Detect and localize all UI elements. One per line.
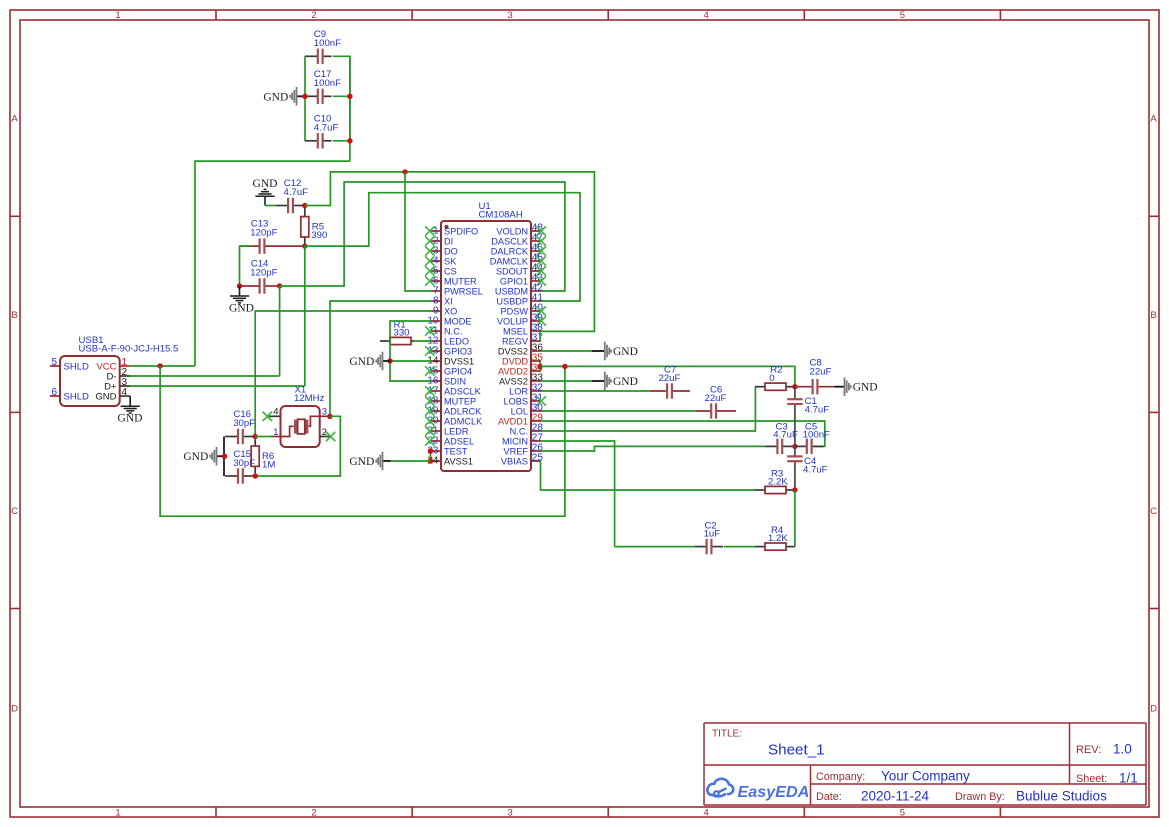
pin 4 of X1	[268, 415, 281, 417]
wire D+ from USB pin3	[130, 385, 305, 387]
svg-text:100nF: 100nF	[314, 38, 341, 49]
svg-text:MUTEP: MUTEP	[444, 396, 476, 406]
svg-text:SHLD: SHLD	[64, 361, 89, 372]
svg-text:DASCLK: DASCLK	[491, 236, 529, 246]
svg-text:D: D	[11, 703, 18, 714]
svg-text:AVSS1: AVSS1	[444, 456, 473, 466]
svg-text:DI: DI	[444, 236, 453, 246]
junction C12 right	[302, 203, 307, 208]
pin 2 of X1	[320, 436, 331, 438]
svg-text:CM108AH: CM108AH	[479, 210, 523, 221]
svg-text:4: 4	[704, 10, 709, 21]
wire VCC vertical C9 to C10 right side	[349, 56, 351, 161]
svg-text:1: 1	[273, 427, 278, 438]
ground flag GND at pin36 DVSS2	[541, 350, 592, 352]
svg-text:GPIO3: GPIO3	[444, 346, 472, 356]
svg-text:2020-11-24: 2020-11-24	[861, 789, 930, 804]
svg-text:Your Company: Your Company	[881, 769, 970, 784]
wire PWRSEL riser	[405, 172, 431, 291]
wire D+ node riser to USBDP net	[305, 193, 580, 301]
svg-text:1/1: 1/1	[1119, 771, 1138, 786]
svg-text:GND: GND	[349, 356, 374, 368]
pin 4 GND	[120, 395, 130, 397]
pin 16 SDIN	[431, 380, 441, 382]
svg-text:VBIAS: VBIAS	[501, 456, 528, 466]
wire VCC riser down to AVDD rail	[160, 366, 565, 516]
junction crystal pin3 / XI	[327, 414, 332, 419]
svg-text:1uF: 1uF	[704, 529, 721, 540]
svg-text:2: 2	[311, 10, 316, 21]
pin 34 AVDD2	[531, 370, 541, 372]
svg-text:4.7uF: 4.7uF	[803, 464, 828, 475]
svg-text:Sheet:: Sheet:	[1076, 773, 1107, 785]
svg-text:6: 6	[51, 387, 57, 398]
svg-text:ADSCLK: ADSCLK	[444, 386, 482, 396]
pin 1 SPDIFO	[431, 230, 441, 232]
pin 28 N.C.	[531, 430, 541, 432]
wire C17 right to VCC vertical	[333, 95, 350, 97]
pin 2 DI	[431, 240, 441, 242]
junction crystal cap ground	[222, 454, 227, 459]
pin 43 GPIO1	[531, 280, 541, 282]
svg-text:DALRCK: DALRCK	[491, 246, 529, 256]
pin 29 AVDD1	[531, 420, 541, 422]
junction PWRSEL riser on REGV net	[402, 169, 407, 174]
svg-text:LEDO: LEDO	[444, 336, 469, 346]
junction R3 right / C4	[792, 487, 797, 492]
junction C17 right	[347, 94, 352, 99]
svg-text:AVSS2: AVSS2	[499, 376, 528, 386]
wire VCC from cap block down-left to USB	[195, 161, 350, 366]
svg-text:4.7uF: 4.7uF	[314, 123, 339, 134]
svg-text:22uF: 22uF	[705, 393, 727, 404]
svg-text:1: 1	[115, 10, 120, 21]
svg-text:GND: GND	[263, 91, 288, 103]
ground flag GND at AVSS1	[383, 460, 391, 462]
wire R1 to pin12 LEDO	[414, 340, 431, 342]
pin 7 PWRSEL	[431, 290, 441, 292]
ground flag GND at DVSS1	[383, 360, 391, 362]
svg-text:LOL: LOL	[511, 406, 528, 416]
svg-text:AVDD2: AVDD2	[498, 366, 528, 376]
pin 19 ADLRCK	[431, 410, 441, 412]
svg-text:DO: DO	[444, 246, 458, 256]
ground flag GND top (at C17)	[297, 95, 305, 97]
ground flag GND at C8	[835, 386, 845, 388]
pin 44 SDOUT	[531, 270, 541, 272]
wire VBIAS pin25 to R3	[541, 461, 756, 490]
svg-text:22uF: 22uF	[810, 366, 832, 377]
svg-text:PWRSEL: PWRSEL	[444, 286, 483, 296]
svg-text:120pF: 120pF	[250, 268, 277, 279]
wire MSEL/REGV tie	[539, 331, 541, 341]
wire AVDD1 pin29 to C5	[541, 421, 825, 446]
junction R2 right / C8 / C1	[792, 384, 797, 389]
pin 47 DASCLK	[531, 240, 541, 242]
wire MODE/DVSS1/SDIN ground tie	[390, 321, 431, 381]
wire XI net from pin8 down to crystal	[330, 301, 431, 416]
wire VCC vertical right of C9/C17/C10	[333, 56, 350, 141]
pin 6 MUTER	[431, 280, 441, 282]
svg-text:Date:: Date:	[816, 791, 842, 803]
svg-text:A: A	[11, 114, 18, 125]
junction C10 right / VCC	[347, 138, 352, 143]
svg-text:PDSW: PDSW	[500, 306, 528, 316]
wire MICIN pin27 to C2	[541, 441, 615, 547]
svg-text:3: 3	[322, 407, 327, 418]
svg-text:4: 4	[704, 808, 709, 819]
svg-text:LOR: LOR	[509, 386, 528, 396]
svg-text:GPIO4: GPIO4	[444, 366, 472, 376]
svg-text:N.C.: N.C.	[510, 426, 528, 436]
pin 20 ADMCLK	[431, 420, 441, 422]
pin 3 D+	[120, 385, 130, 387]
svg-text:DVDD: DVDD	[502, 356, 528, 366]
pin 6 SHLD	[50, 395, 60, 397]
junction TEST pin	[428, 448, 433, 453]
svg-text:Sheet_1: Sheet_1	[768, 742, 825, 759]
svg-text:DAMCLK: DAMCLK	[490, 256, 529, 266]
sheet title block	[704, 722, 1146, 724]
svg-text:VOLDN: VOLDN	[496, 226, 528, 236]
pin 27 MICIN	[531, 440, 541, 442]
svg-text:100nF: 100nF	[314, 78, 341, 89]
svg-text:Drawn By:: Drawn By:	[955, 791, 1005, 803]
svg-text:C: C	[1150, 506, 1157, 517]
pin 9 XO	[431, 310, 441, 312]
junction VCC at USB	[157, 363, 162, 368]
svg-text:Company:: Company:	[816, 771, 865, 783]
svg-text:GND: GND	[229, 303, 254, 315]
svg-text:SDIN: SDIN	[444, 376, 466, 386]
pin 1 VCC	[120, 365, 130, 367]
svg-text:4.7uF: 4.7uF	[805, 405, 830, 416]
pin 33 AVSS2	[531, 380, 541, 382]
svg-text:TEST: TEST	[444, 446, 468, 456]
pin 4 SK	[431, 260, 441, 262]
pin 46 DALRCK	[531, 250, 541, 252]
pin 31 LOBS	[531, 400, 541, 402]
junction C3/C5/C1/C4 node	[792, 444, 797, 449]
svg-text:USBDM: USBDM	[495, 286, 528, 296]
svg-text:Bublue Studios: Bublue Studios	[1016, 789, 1107, 804]
svg-text:1: 1	[115, 808, 120, 819]
junction DVDD/AVDD2	[537, 364, 542, 369]
wire VCC from USB pin1	[130, 365, 195, 367]
ground symbol GND at USB pin4	[129, 396, 131, 406]
svg-text:MICIN: MICIN	[502, 436, 528, 446]
junction C14 right / D- node	[277, 283, 282, 288]
wire GND stem to C12	[265, 205, 276, 207]
pin 8 XI	[431, 300, 441, 302]
svg-text:1M: 1M	[262, 460, 275, 471]
svg-text:C: C	[11, 506, 18, 517]
svg-text:N.C.: N.C.	[444, 326, 462, 336]
wire C12/R5 node to REGV net riser	[305, 172, 595, 332]
svg-text:D: D	[1150, 703, 1157, 714]
svg-text:SDOUT: SDOUT	[496, 266, 529, 276]
svg-text:25: 25	[532, 453, 544, 464]
pin 25 VBIAS	[531, 460, 541, 462]
wire D+ riser down to USB D+	[304, 246, 306, 386]
svg-text:EasyEDA: EasyEDA	[738, 784, 810, 801]
junction C15 right / R6 bottom	[253, 473, 258, 478]
wire R3 junction down to R4	[794, 490, 796, 547]
wire XO to crystal pin1	[255, 436, 271, 438]
ground symbol GND above C12	[264, 196, 266, 205]
pin 38 MSEL	[531, 330, 541, 332]
wire DVDD/AVDD2 power tie	[539, 361, 541, 371]
svg-text:22uF: 22uF	[659, 373, 681, 384]
pin 42 USBDM	[531, 290, 541, 292]
svg-text:SPDIFO: SPDIFO	[444, 226, 478, 236]
svg-text:4: 4	[273, 407, 278, 418]
svg-text:USB-A-F-90-JCJ-H15.5: USB-A-F-90-JCJ-H15.5	[79, 344, 179, 355]
pin 30 LOL	[531, 410, 541, 412]
svg-text:30pF: 30pF	[233, 418, 255, 429]
wire AVDD rail to R2	[540, 366, 795, 386]
svg-text:MUTER: MUTER	[444, 276, 477, 286]
pin 17 ADSCLK	[431, 390, 441, 392]
wire AVSS1 to ground	[390, 460, 431, 462]
ground symbol GND below C14	[239, 286, 241, 296]
wire C16 left to C15 left (ground)	[223, 437, 225, 477]
wire pin14 DVSS1 to ground	[390, 360, 431, 362]
pin 3 of X1	[320, 415, 330, 417]
pin 11 N.C.	[431, 330, 441, 332]
svg-text:VREF: VREF	[503, 446, 528, 456]
pin 3 DO	[431, 250, 441, 252]
svg-text:VOLUP: VOLUP	[497, 316, 528, 326]
junction C16 right / XO	[253, 434, 258, 439]
svg-text:GND: GND	[118, 412, 143, 424]
ground flag GND at pin33 AVSS2	[541, 380, 592, 382]
wire C10 right to VCC vertical	[333, 140, 350, 142]
pin 41 USBDP	[531, 300, 541, 302]
wire D- node to USBDM net	[280, 182, 565, 291]
svg-text:5: 5	[900, 808, 905, 819]
EasyEDA logo	[707, 779, 733, 797]
svg-text:3: 3	[508, 808, 513, 819]
svg-text:ADSEL: ADSEL	[444, 436, 474, 446]
junction AVDD rail / VCC riser	[562, 364, 567, 369]
junction C17 left	[302, 94, 307, 99]
wire D- from USB pin2	[130, 375, 280, 377]
svg-text:REV:: REV:	[1076, 744, 1101, 756]
wire XO net from pin9 down to C16/crystal pin1	[255, 311, 431, 437]
wire D- riser down to USB D-	[279, 286, 281, 376]
pin 26 VREF	[531, 450, 541, 452]
svg-text:LEDR: LEDR	[444, 426, 469, 436]
svg-text:GND: GND	[853, 382, 878, 394]
pin 32 LOR	[531, 390, 541, 392]
junction R5 bottom / C13 right / D+ node	[302, 243, 307, 248]
wire TEST/AVSS1 tie	[430, 451, 432, 461]
pin 14 DVSS1	[431, 360, 441, 362]
pin 12 LEDO	[431, 340, 441, 342]
svg-text:120pF: 120pF	[250, 228, 277, 239]
pin 15 GPIO4	[431, 370, 441, 372]
pin 45 DAMCLK	[531, 260, 541, 262]
svg-text:ADLRCK: ADLRCK	[444, 406, 482, 416]
svg-text:MSEL: MSEL	[503, 326, 528, 336]
svg-text:REGV: REGV	[502, 336, 529, 346]
svg-text:DVSS2: DVSS2	[498, 346, 528, 356]
svg-text:12MHz: 12MHz	[294, 393, 325, 404]
pin 2 D-	[120, 375, 130, 377]
pin 1 of X1	[271, 436, 281, 438]
pin 5 SHLD	[50, 365, 60, 367]
junction DVSS1 ground	[387, 358, 392, 363]
svg-text:USBDP: USBDP	[496, 296, 528, 306]
wire C13 left down to C14 left	[240, 246, 251, 286]
pin 21 LEDR	[431, 430, 441, 432]
pin 5 CS	[431, 270, 441, 272]
svg-text:390: 390	[311, 230, 327, 241]
svg-text:SK: SK	[444, 256, 457, 266]
svg-text:3: 3	[508, 10, 513, 21]
pin 39 VOLUP	[531, 320, 541, 322]
svg-text:5: 5	[900, 10, 905, 21]
pin 10 MODE	[431, 320, 441, 322]
svg-text:GND: GND	[253, 178, 278, 190]
wire C2 to R4	[724, 546, 756, 548]
svg-text:GND: GND	[613, 346, 638, 358]
svg-text:MODE: MODE	[444, 316, 472, 326]
svg-text:1.0: 1.0	[1113, 742, 1132, 757]
svg-text:XI: XI	[444, 296, 453, 306]
svg-text:A: A	[1150, 114, 1157, 125]
pin 13 GPIO3	[431, 350, 441, 352]
pin 23 TEST	[431, 450, 441, 452]
wire GND vertical left of C9/C17/C10	[304, 56, 306, 141]
junction C14 left / GND	[237, 283, 242, 288]
pin 18 MUTEP	[431, 400, 441, 402]
svg-text:GND: GND	[349, 456, 374, 468]
pin 22 ADSEL	[431, 440, 441, 442]
svg-text:5: 5	[51, 357, 57, 368]
wire XI to C15 node	[255, 416, 340, 476]
svg-text:GND: GND	[183, 451, 208, 463]
svg-text:LOBS: LOBS	[503, 396, 528, 406]
pin 36 DVSS2	[531, 350, 541, 352]
svg-text:CS: CS	[444, 266, 457, 276]
svg-text:AVDD1: AVDD1	[498, 416, 528, 426]
svg-text:B: B	[1150, 310, 1156, 321]
ground flag GND at crystal caps	[217, 455, 226, 457]
wire VREF pin26 to C3	[541, 446, 765, 451]
svg-text:4: 4	[122, 387, 128, 398]
pin 48 VOLDN	[531, 230, 541, 232]
svg-text:4.7uF: 4.7uF	[284, 187, 309, 198]
wire pin28 to R2 left	[541, 387, 755, 431]
svg-text:GND: GND	[613, 376, 638, 388]
pin 35 DVDD	[531, 360, 541, 362]
svg-text:GPIO1: GPIO1	[500, 276, 528, 286]
svg-text:DVSS1: DVSS1	[444, 356, 474, 366]
svg-text:B: B	[11, 310, 17, 321]
pin 24 AVSS1	[431, 460, 441, 462]
svg-text:GND: GND	[95, 391, 116, 402]
svg-text:XO: XO	[444, 306, 457, 316]
junction AVSS1 pin	[428, 458, 433, 463]
svg-text:2: 2	[311, 808, 316, 819]
pin 37 REGV	[531, 340, 541, 342]
pin 40 PDSW	[531, 310, 541, 312]
svg-text:SHLD: SHLD	[64, 391, 89, 402]
svg-text:ADMCLK: ADMCLK	[444, 416, 483, 426]
svg-text:TITLE:: TITLE:	[712, 729, 742, 740]
